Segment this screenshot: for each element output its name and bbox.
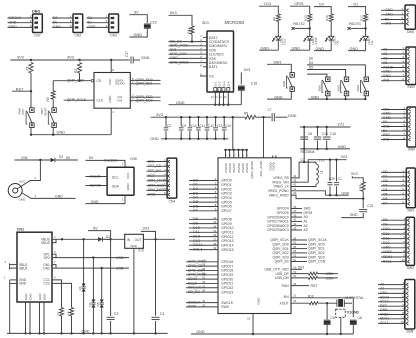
svg-text:USB_DM: USB_DM <box>275 276 289 280</box>
svg-text:GND: GND <box>196 330 205 334</box>
RP2350 pin 55 wire (QSPI_SD1) <box>291 248 307 250</box>
CN4 pin 4 wire (RST) <box>147 175 168 177</box>
svg-text:43: 43 <box>293 226 296 230</box>
RP2350 pin 39 wire (A0) <box>291 216 302 218</box>
svg-text:RUN: RUN <box>282 284 290 288</box>
svg-text:R17: R17 <box>359 15 363 21</box>
header SW1 (digital 0-7) pin 3 wire (D2) <box>381 180 406 182</box>
flash U4 box <box>94 73 130 109</box>
svg-text:IOVDD: IOVDD <box>232 163 236 172</box>
svg-text:52: 52 <box>293 254 296 258</box>
svg-text:3V3: 3V3 <box>341 155 348 159</box>
capacitor C2 <box>165 116 167 118</box>
svg-text:GND: GND <box>24 294 28 300</box>
flash pin 2 (QSPI_SD1) <box>130 83 160 85</box>
svg-text:VREG_AVDD: VREG_AVDD <box>269 193 290 197</box>
svg-text:GND: GND <box>130 244 138 248</box>
wire D1 to IC3 IN <box>104 238 125 240</box>
svg-text:D2: D2 <box>59 155 63 159</box>
microSD pin 8 (DAT1) <box>203 66 207 68</box>
pushbutton SW7 (BOOT) <box>52 108 56 113</box>
svg-text:24: 24 <box>202 299 205 303</box>
RP2350 pin 4 GPIO2 wire (D2) <box>189 188 218 190</box>
svg-text:R8: R8 <box>272 17 276 21</box>
svg-text:SD_CS: SD_CS <box>188 290 200 294</box>
svg-text:51: 51 <box>293 270 296 274</box>
svg-text:GND: GND <box>141 56 150 60</box>
resistor R5 (USB_DP series) <box>291 273 308 275</box>
header SW3 (analog) pin 6 wire (GND) <box>381 71 406 73</box>
svg-text:CN4: CN4 <box>169 199 176 203</box>
svg-text:D5: D5 <box>96 302 100 306</box>
svg-text:OLED33: OLED33 <box>104 159 117 163</box>
wire R8 to LED <box>277 22 279 37</box>
RP2350 pin 9 GPIO7 wire (D7) <box>189 210 218 212</box>
resistor R12 <box>308 14 312 22</box>
svg-text:C6: C6 <box>358 316 362 320</box>
flash pin 3 (QSPI_SD2) <box>130 96 160 98</box>
header SW4 (power) pin 8 wire (3V3) <box>381 139 407 141</box>
svg-text:3V3: 3V3 <box>17 56 24 60</box>
header SW5 pin 4 wire (3V3) <box>381 23 405 25</box>
wire LED to GND <box>309 40 311 50</box>
connector CN7 box <box>33 14 43 33</box>
svg-text:CC2: CC2 <box>43 282 50 286</box>
resistor R6 (USB_DM series) <box>291 277 308 279</box>
wire IC3 OUT to 3V3 <box>141 231 156 239</box>
svg-text:D3: D3 <box>78 286 82 290</box>
header SW8 (aux) pin 5 wire (SCL0) <box>378 301 405 303</box>
RP2350 pin 12 GPIO8 wire (D8) <box>189 218 218 220</box>
svg-text:RST: RST <box>148 174 155 178</box>
svg-text:SW4: SW4 <box>356 85 360 92</box>
capacitor C21 <box>359 209 367 211</box>
LED LED2 <box>307 36 312 40</box>
wire R12 to LED <box>309 22 311 37</box>
svg-text:1V1: 1V1 <box>337 123 344 127</box>
svg-text:56: 56 <box>293 236 296 240</box>
svg-text:GND: GND <box>57 131 66 135</box>
junction 3V3 feed <box>232 116 234 118</box>
header SW3 (analog) pin 8 wire (3V3) <box>381 80 406 82</box>
CN1 SBU stubs <box>9 264 17 266</box>
svg-text:R2: R2 <box>74 69 78 73</box>
RP2350 pin 16 GPIO12 wire (D12) <box>189 236 218 238</box>
RP2350 pin 25 SWD wire <box>186 306 218 308</box>
svg-text:GND: GND <box>108 95 112 103</box>
wire 3V3 to C18 <box>240 72 242 84</box>
svg-text:C8: C8 <box>308 132 312 136</box>
capacitor C16 <box>326 126 328 128</box>
junction USB-/D5 <box>101 267 103 269</box>
svg-text:SCL1: SCL1 <box>383 259 392 263</box>
ground rail (cap bank) <box>161 138 228 140</box>
wire 5V to C19 <box>129 15 147 23</box>
svg-text:27: 27 <box>202 258 205 262</box>
wire R10 to crystal <box>318 302 337 304</box>
RP2350 pin 24 SWCLK wire <box>186 302 218 304</box>
svg-text:SWD: SWD <box>188 305 197 309</box>
RP2350 pin 32 GPIO21 wire (SCL0) <box>186 282 218 284</box>
RP2350 pin 51 wire (QSPI_CSN) <box>291 261 307 263</box>
RP2350 pin 5 GPIO3 wire (D3) <box>189 192 218 194</box>
RP2350 pin 19 GND <box>252 314 254 335</box>
svg-text:19: 19 <box>213 246 216 250</box>
svg-text:D0: D0 <box>53 16 58 20</box>
RP2350 pin 28 GPIO17 wire (SPI0_CS) <box>186 265 218 267</box>
svg-text:GPIO23: GPIO23 <box>221 290 233 294</box>
svg-text:C5: C5 <box>331 316 335 320</box>
wire C18 to GND rail <box>240 90 242 105</box>
svg-text:GND: GND <box>274 95 283 99</box>
junction AVDD/C21 <box>362 197 364 199</box>
wire 3V3 to R13 <box>352 176 363 182</box>
svg-text:SW3: SW3 <box>407 85 414 89</box>
header SW4 (power) pin 7 wire (RST) <box>381 134 407 136</box>
RP2350 top pin stubs (DVDD) <box>272 155 274 158</box>
wire R1 to RST node <box>30 73 32 91</box>
capacitor C7 <box>264 116 272 118</box>
svg-text:41: 41 <box>293 218 296 222</box>
net 3V3 rail (decoupling) <box>151 116 245 118</box>
svg-text:D1: D1 <box>383 175 388 179</box>
wire C17 to GND <box>133 59 140 61</box>
header SW8 (aux) pin 6 wire (RST) <box>378 305 405 307</box>
svg-text:30: 30 <box>202 271 205 275</box>
microSD pin 3 (CMD/MOSI) <box>169 45 208 47</box>
svg-text:SWD: SWD <box>221 305 229 309</box>
svg-text:D4: D4 <box>309 61 313 65</box>
svg-text:DBG: DBG <box>32 10 40 14</box>
RP2350 pin 37 wire (GP25) <box>291 212 302 214</box>
microSD shield pad G1 <box>214 92 216 105</box>
RP2350 IC1 box <box>218 158 291 314</box>
svg-text:A3: A3 <box>304 228 308 232</box>
connector CN2 pin 3 (GND) <box>52 26 73 28</box>
svg-text:GND: GND <box>338 145 347 149</box>
header SW2 (digital 8-13) pin 1 wire (D8) <box>381 219 406 221</box>
header SW2 (digital 8-13) box <box>406 217 415 265</box>
header SW2 (digital 8-13) pin 10 wire (SCL1) <box>381 261 406 263</box>
capacitor C13 <box>214 116 216 118</box>
pushbutton SW3 <box>344 77 348 82</box>
wire 3V3 to R11 <box>169 15 193 26</box>
svg-text:D10: D10 <box>383 227 389 231</box>
svg-text:C4: C4 <box>160 312 165 316</box>
svg-text:A2: A2 <box>383 56 387 60</box>
svg-text:SPI0_MISO: SPI0_MISO <box>170 60 189 64</box>
wire crystal to XIN leg <box>344 302 352 304</box>
capacitor C15 <box>316 126 318 128</box>
svg-text:VCC: VCC <box>19 180 26 184</box>
header SW3 (analog) pin 3 wire (A2) <box>381 58 406 60</box>
connector CN4 box <box>167 158 177 198</box>
svg-text:CN1: CN1 <box>17 228 24 232</box>
svg-text:R7: R7 <box>56 311 60 315</box>
ground <box>314 50 331 52</box>
wire VREG_FB <box>291 162 316 178</box>
microSD pin 7 (DAT0/MISO) <box>169 62 208 64</box>
svg-text:3V3: 3V3 <box>148 159 154 163</box>
capacitor C10 <box>189 116 191 118</box>
microSD pin 9 (CS) <box>200 75 207 77</box>
header SW4 (power) box <box>407 107 416 147</box>
wire SW1 net <box>267 64 291 72</box>
svg-text:GND: GND <box>316 47 325 51</box>
CN4 pin 6 wire (SPI0_SCK) <box>147 185 168 187</box>
RP2350 pin 34 GPIO23 wire (SD_CS) <box>186 291 218 293</box>
svg-text:SCL1: SCL1 <box>193 247 203 251</box>
svg-text:GND: GND <box>53 25 61 29</box>
svg-text:53: 53 <box>293 266 296 270</box>
CN4 pin 8 wire (GND) <box>147 194 168 196</box>
resistor R2 <box>78 63 82 74</box>
svg-text:R12: R12 <box>303 15 307 21</box>
svg-text:GND: GND <box>350 213 358 217</box>
diode D2 <box>51 158 55 163</box>
svg-text:X1CRYSTAL: X1CRYSTAL <box>345 296 365 300</box>
svg-text:VBUS: VBUS <box>41 241 50 245</box>
svg-text:VCC: VCC <box>126 172 130 179</box>
svg-text:CS: CS <box>97 79 102 83</box>
resistor R13 <box>361 182 365 192</box>
header SW4 (power) pin 4 wire (5V) <box>381 121 407 123</box>
svg-text:GND: GND <box>383 70 391 74</box>
svg-text:C1: C1 <box>338 177 342 181</box>
svg-text:5V: 5V <box>89 156 94 160</box>
header SW2 (digital 8-13) pin 2 wire (D9) <box>381 224 406 226</box>
svg-text:GND: GND <box>288 114 297 118</box>
capacitor C14 <box>223 116 225 118</box>
svg-text:A1: A1 <box>383 52 387 56</box>
wire C21 to GND <box>341 213 363 218</box>
resistor R8 (CC2) <box>70 308 74 317</box>
svg-text:GND: GND <box>42 294 46 300</box>
wire XOUT to R10 <box>291 302 309 304</box>
svg-text:C14: C14 <box>225 124 231 128</box>
svg-text:D2: D2 <box>383 179 388 183</box>
ground rail (left) <box>7 332 168 334</box>
svg-text:GND: GND <box>311 95 320 99</box>
svg-text:26: 26 <box>293 282 296 286</box>
header SW4 (power) pin 1 wire (VIN) <box>381 109 407 111</box>
svg-text:PAD E3: PAD E3 <box>349 22 361 26</box>
flash pin 5 (QSPI_SD0) <box>130 79 160 81</box>
header SW8 (aux) pin 8 wire (VREF) <box>378 314 405 316</box>
wire SW7 to GND <box>52 128 54 135</box>
svg-text:R13: R13 <box>358 185 362 191</box>
svg-text:42: 42 <box>293 222 296 226</box>
svg-text:BOOT: BOOT <box>43 107 47 116</box>
svg-text:ADC_AVDD: ADC_AVDD <box>259 161 263 177</box>
junction VBUS stub <box>61 238 63 240</box>
svg-text:C7: C7 <box>268 108 272 112</box>
svg-text:33: 33 <box>202 284 205 288</box>
ESD diode D3 <box>83 239 85 283</box>
RP2350 pin 19 GPIO15 wire (SCL1) <box>189 249 218 251</box>
svg-text:TFT_CS: TFT_CS <box>148 164 162 168</box>
connector CN7 pin 3 (SWD) <box>8 26 33 28</box>
wire 3V3 to RP2350 VDD bus <box>232 117 234 150</box>
wire 5V to CN5 <box>86 160 126 167</box>
header SW3 (analog) pin 2 wire (A1) <box>381 53 406 55</box>
wire L1 to VREG_LX <box>291 184 316 186</box>
RP2350 pin 2 GPIO0 wire (D0) <box>189 180 218 182</box>
wire 5V tap <box>88 231 111 240</box>
connector CN3 box <box>109 14 119 33</box>
svg-text:3V3: 3V3 <box>383 124 389 128</box>
svg-text:D1: D1 <box>370 40 374 44</box>
header SW8 (aux) pin 2 wire (A1) <box>378 288 405 290</box>
capacitor C11 <box>197 116 199 118</box>
svg-text:39: 39 <box>293 213 296 217</box>
junction SD_CS/R11 <box>191 40 193 42</box>
RP2350 VDD top pin bus <box>226 149 247 151</box>
svg-text:A1: A1 <box>380 287 384 291</box>
svg-text:GND: GND <box>257 297 261 305</box>
svg-text:GND: GND <box>134 33 143 37</box>
CN1 GND pins wire <box>10 279 17 281</box>
header SW1 (digital 0-7) pin 7 wire (D6) <box>381 198 406 200</box>
svg-text:GND: GND <box>19 282 27 286</box>
wire LED to GND <box>365 40 367 51</box>
CN1 DP pins wire (USB+) <box>52 254 56 257</box>
wire QSPI_CS to R3 <box>52 81 54 91</box>
svg-text:QSPI_IOVDD: QSPI_IOVDD <box>250 161 254 179</box>
svg-text:D5: D5 <box>309 66 313 70</box>
svg-text:D13: D13 <box>383 241 389 245</box>
header SW5 box <box>405 5 416 29</box>
wire SW2 to GND <box>326 96 328 99</box>
wire VREG_VIN to 3V3 <box>291 160 347 183</box>
header SW1 (digital 0-7) pin 2 wire (D1) <box>381 176 406 178</box>
wire SW3 to GND <box>345 96 347 99</box>
svg-text:18: 18 <box>213 242 216 246</box>
header SW5 pin 1 wire (GND) <box>381 9 405 11</box>
wire X1GND to ground <box>340 317 342 334</box>
wire SW6 to GND <box>30 128 32 135</box>
header SW1 (digital 0-7) pin 6 wire (D5) <box>381 194 406 196</box>
svg-text:GND: GND <box>176 101 185 105</box>
svg-text:29: 29 <box>202 267 205 271</box>
capacitor C20 <box>329 159 331 161</box>
svg-text:D1: D1 <box>106 235 110 239</box>
flash pin 4 (GND) <box>110 108 112 135</box>
capacitor C3 <box>110 239 112 316</box>
svg-text:D13: D13 <box>264 2 271 6</box>
svg-text:GP25: GP25 <box>314 37 318 45</box>
svg-text:D7: D7 <box>383 202 388 206</box>
junction VIN/jack <box>39 159 41 161</box>
resistor R7 <box>60 308 64 317</box>
connector CN2 pin 2 (5V) <box>52 22 73 24</box>
svg-text:R10: R10 <box>308 294 314 298</box>
connector CN3 pin 1 (D1) <box>87 17 109 19</box>
junction QSPI_CS/R2 <box>78 80 80 82</box>
svg-text:16: 16 <box>213 233 216 237</box>
svg-text:SW1: SW1 <box>282 80 286 87</box>
svg-text:28: 28 <box>202 263 205 267</box>
wire D2 to 5V <box>55 159 78 161</box>
capacitor C17 <box>130 57 132 64</box>
connector CN7 pin 1 (SWCLK) <box>8 17 33 19</box>
svg-text:G-4: G-4 <box>227 81 231 86</box>
svg-text:GND: GND <box>55 195 63 199</box>
capacitor C18 <box>238 85 245 87</box>
crystal ground pad X1GND <box>336 309 346 317</box>
wire D0 to resistor <box>314 7 331 14</box>
svg-text:OUT: OUT <box>135 238 142 242</box>
svg-text:QSPI_SS: QSPI_SS <box>275 260 290 264</box>
svg-text:C18: C18 <box>251 82 257 86</box>
header SW3 (analog) box <box>406 47 416 85</box>
header SW1 (digital 0-7) pin 4 wire (D3) <box>381 185 406 187</box>
header SW2 (digital 8-13) pin 8 wire (VREF) <box>381 251 406 253</box>
svg-text:A3: A3 <box>383 61 387 65</box>
connector CN2 pin 1 (D0) <box>52 17 73 19</box>
svg-text:GP25: GP25 <box>294 2 303 6</box>
ESD diode D4 <box>92 258 94 300</box>
ground rail (buttons/flash) <box>31 134 111 136</box>
header SW1 (digital 0-7) pin 8 wire (D7) <box>381 203 406 205</box>
CN1 CC1 wire to R7 <box>52 280 62 308</box>
RP2350 pin 41 wire (A1) <box>291 220 302 222</box>
svg-text:31: 31 <box>202 276 205 280</box>
junction R2/3V3 <box>78 59 80 61</box>
svg-text:GND: GND <box>350 47 359 51</box>
wire VREG_AVDD filter <box>291 195 363 199</box>
svg-text:R9: R9 <box>244 111 248 115</box>
svg-text:36: 36 <box>293 205 296 209</box>
svg-text:13: 13 <box>213 220 216 224</box>
svg-text:37: 37 <box>293 209 296 213</box>
pushbutton SW4 <box>364 77 368 82</box>
header SW1 (digital 0-7) pin 5 wire (D4) <box>381 189 406 191</box>
capacitor C8 <box>303 126 305 128</box>
net 1V1 rail <box>300 126 351 128</box>
header SW2 (digital 8-13) pin 6 wire (D13) <box>381 242 406 244</box>
svg-text:GND: GND <box>383 74 391 78</box>
RP2350 pin 33 GPIO22 wire (TFT_DC) <box>186 287 218 289</box>
RP2350 pin 56 wire (QSPI_SCLK) <box>291 239 307 241</box>
svg-text:34: 34 <box>202 289 205 293</box>
svg-text:GND: GND <box>91 200 99 204</box>
svg-text:SBU2: SBU2 <box>19 266 28 270</box>
svg-text:GND: GND <box>292 46 301 50</box>
svg-text:D11: D11 <box>383 232 389 236</box>
junction GND SW6 <box>30 134 32 136</box>
svg-text:QSPI_CSN: QSPI_CSN <box>308 260 326 264</box>
svg-text:GND: GND <box>88 25 96 29</box>
RP2350 pin 53 wire (QSPI_SD0) <box>291 243 307 245</box>
svg-text:3V3: 3V3 <box>156 113 163 117</box>
resistor R11 <box>190 26 194 34</box>
junction RST/R1 <box>30 90 32 92</box>
svg-text:D1: D1 <box>353 2 358 6</box>
svg-text:R8: R8 <box>66 311 70 315</box>
resistor R8 <box>276 14 280 22</box>
CN1 DN pins wire (USB-) <box>52 265 56 269</box>
ground rail (1V1 caps) <box>300 148 350 150</box>
svg-text:VIN: VIN <box>21 156 28 160</box>
header SW2 (digital 8-13) pin 9 wire (SDA1) <box>381 256 406 258</box>
svg-text:CN5: CN5 <box>130 157 137 161</box>
header SW2 (digital 8-13) pin 5 wire (D12) <box>381 238 406 240</box>
capacitor C9 <box>180 116 182 118</box>
wire D5 to SW3 <box>307 70 346 78</box>
svg-text:G-3: G-3 <box>222 81 226 86</box>
wire C19 to GND <box>129 28 147 37</box>
